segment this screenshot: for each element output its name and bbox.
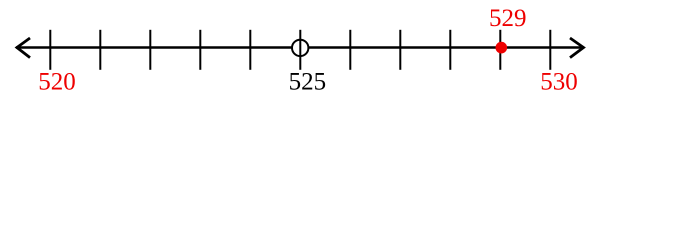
svg-text:525: 525 [289, 69, 327, 96]
svg-text:530: 530 [540, 69, 578, 96]
svg-text:529: 529 [489, 5, 527, 32]
svg-text:520: 520 [38, 69, 76, 96]
